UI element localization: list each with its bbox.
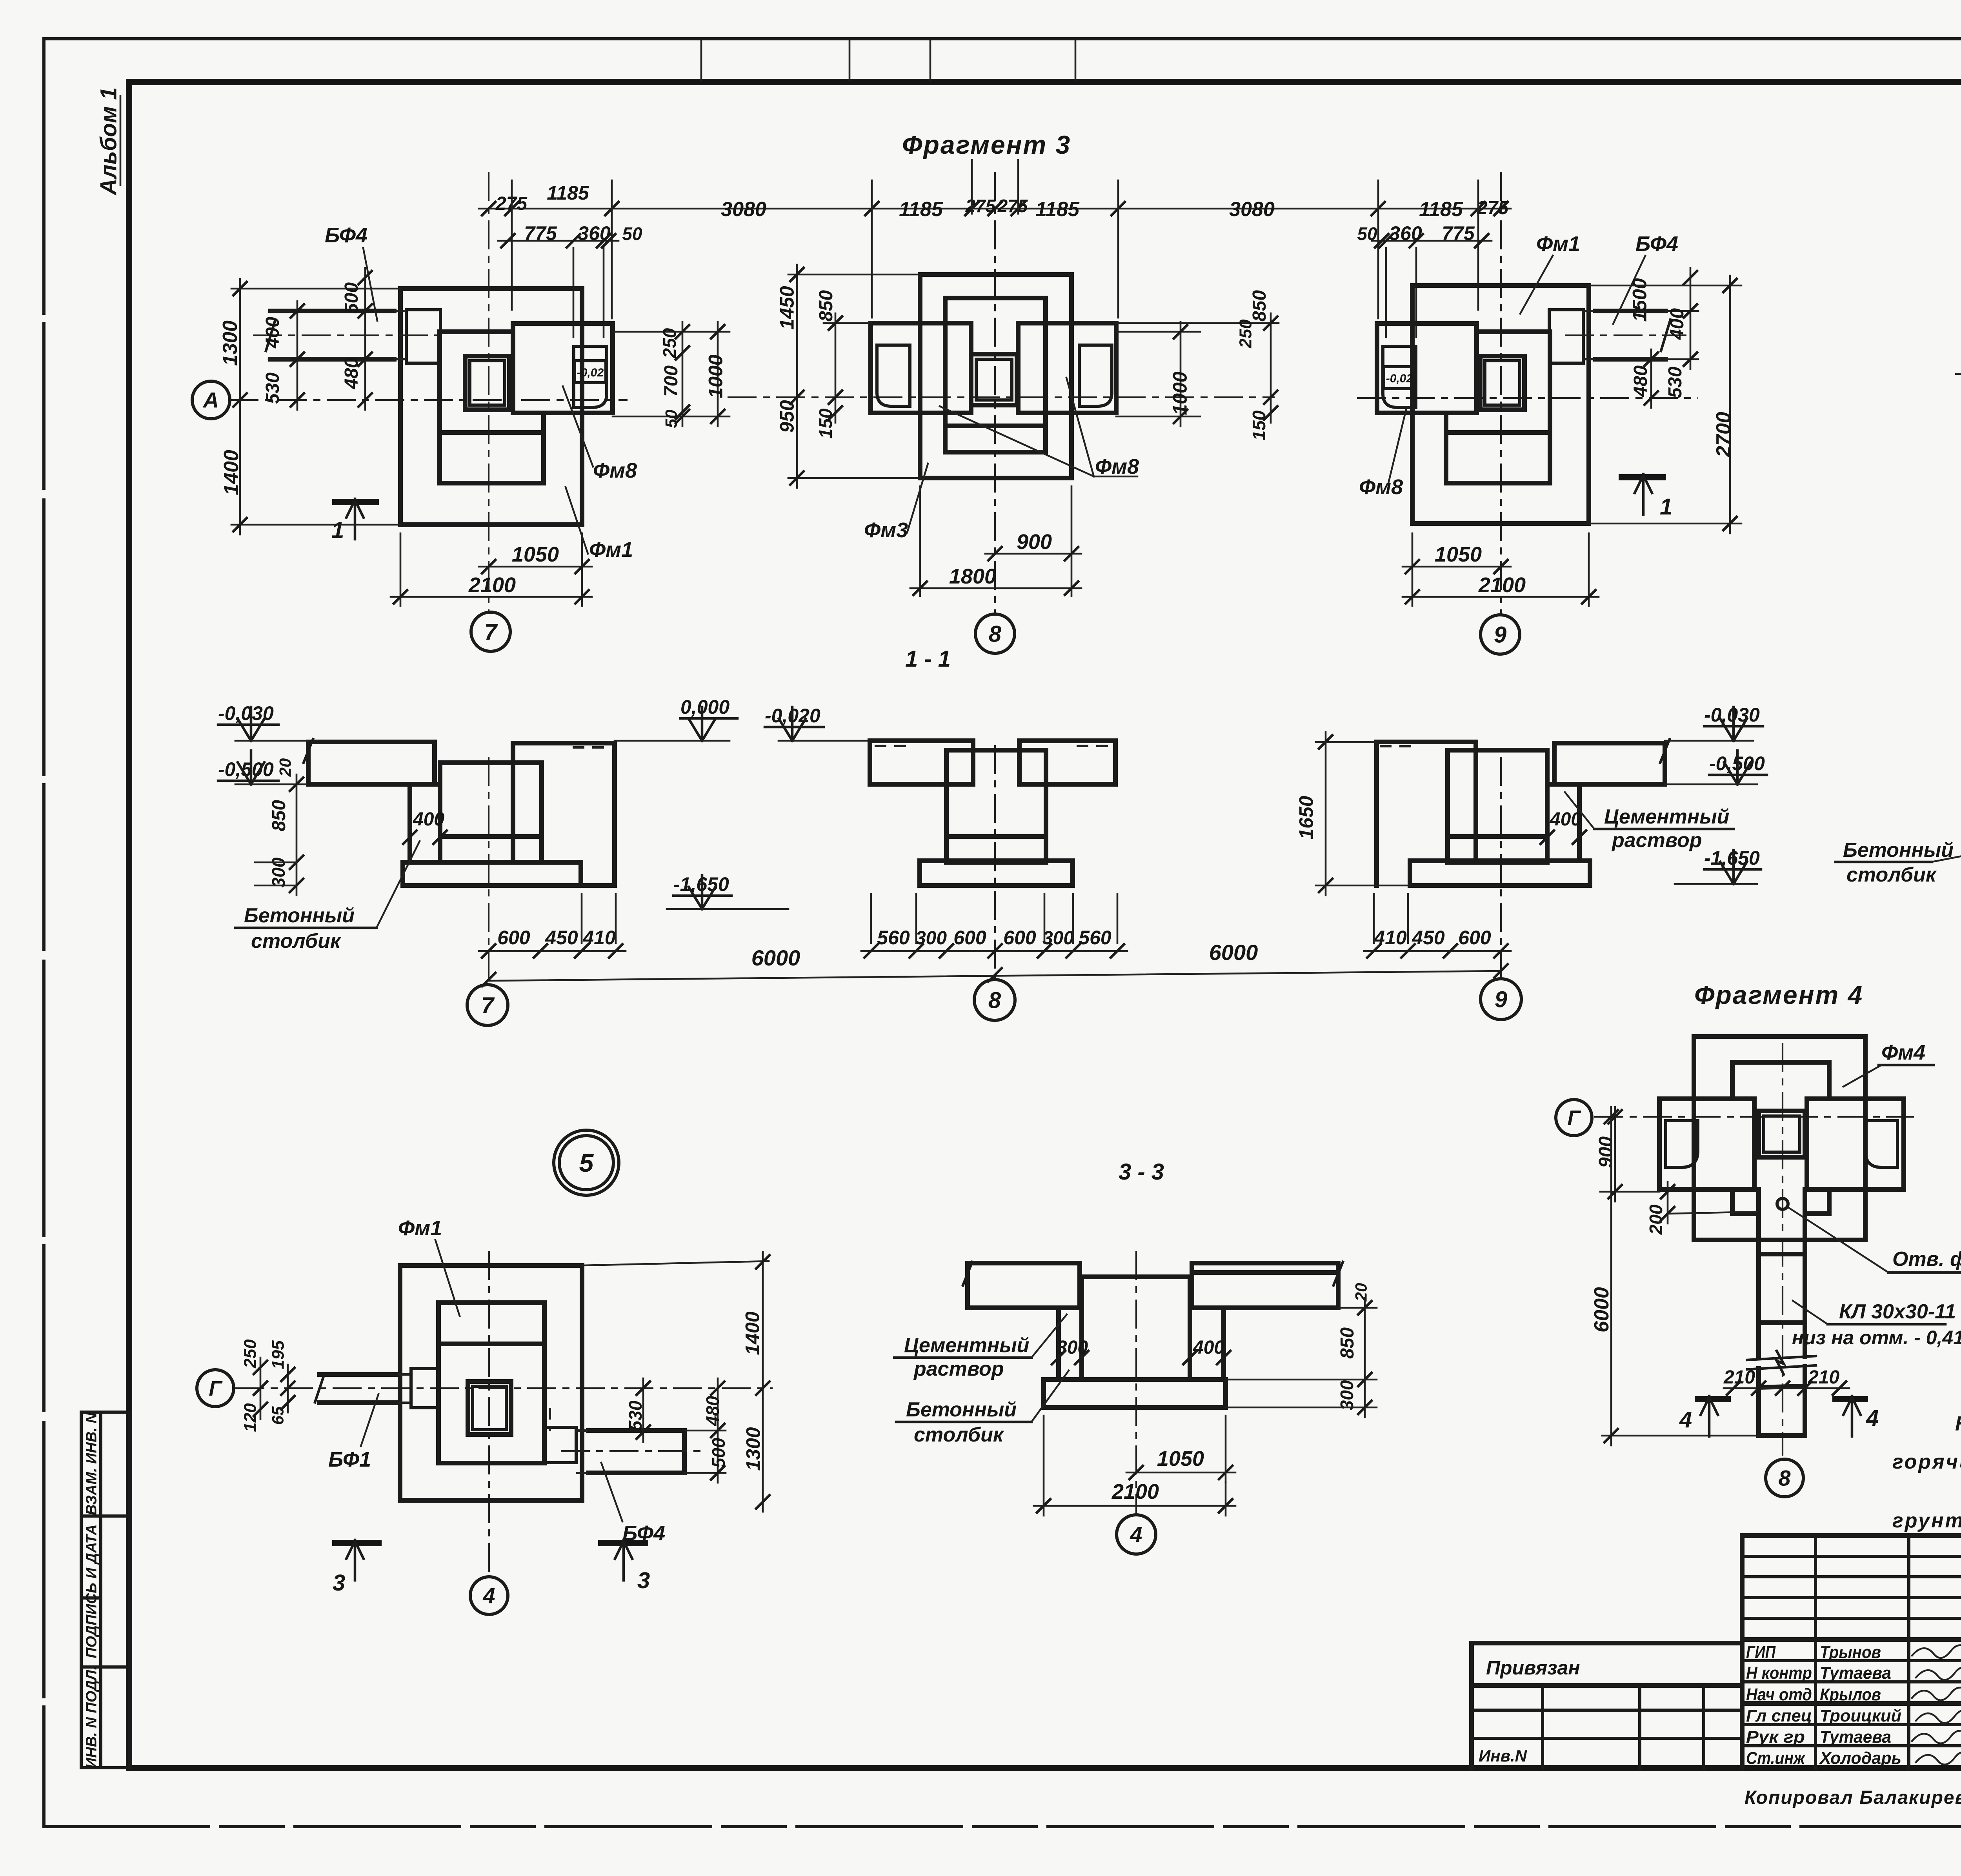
svg-text:Фм1: Фм1 [398, 1216, 442, 1240]
section A right block [513, 743, 615, 885]
svg-text:950: 950 [776, 400, 798, 433]
axis A dash-dot line [229, 399, 628, 401]
svg-text:-0,030: -0,030 [218, 702, 274, 724]
svg-text:2100: 2100 [468, 573, 516, 597]
axis 7 line [488, 172, 489, 611]
section mark 1 (left, plan 7) [335, 499, 376, 505]
section C axis line [1500, 757, 1502, 980]
svg-text:Привязан: Привязан [1486, 1657, 1580, 1679]
svg-text:столбик: столбик [1846, 863, 1937, 886]
axis G line (plan 5) [235, 1387, 773, 1389]
svg-text:Копировал Балакирева: Копировал Балакирева [1745, 1787, 1961, 1808]
svg-text:50: 50 [1357, 224, 1377, 244]
svg-text:КЛ 30х30-11: КЛ 30х30-11 [1839, 1300, 1956, 1323]
svg-text:2100: 2100 [1111, 1480, 1159, 1503]
title block left part [1472, 1641, 1742, 1645]
section mark 1 (right, plan 9) [1622, 474, 1663, 480]
signature squiggles [1912, 1645, 1961, 1658]
axis 8 line [994, 172, 996, 613]
svg-text:2100: 2100 [1478, 573, 1526, 597]
section 3-3 right post [1190, 1308, 1224, 1380]
svg-text:500: 500 [341, 282, 362, 314]
svg-text:7: 7 [481, 993, 495, 1018]
svg-text:Фрагмент 3: Фрагмент 3 [902, 130, 1071, 159]
svg-text:500: 500 [708, 1438, 729, 1468]
dim 1050 (plan 9) [1412, 533, 1413, 606]
section C floor slab right [1554, 743, 1665, 784]
section 3-3 lotok slab right [1192, 1263, 1338, 1308]
dim chain 275-1185-3080-1185-275x2-1185-3080-1185-275 [479, 208, 1511, 210]
svg-text:БФ4: БФ4 [1635, 232, 1678, 256]
svg-text:Тутаева: Тутаева [1820, 1727, 1891, 1747]
svg-text:560: 560 [1079, 927, 1111, 949]
section B footing [920, 861, 1073, 885]
svg-text:Холодарь: Холодарь [1819, 1749, 1901, 1768]
svg-text:410: 410 [1373, 927, 1407, 949]
axis 7 bubble (section row) [467, 985, 508, 1025]
svg-text:65: 65 [269, 1406, 287, 1425]
svg-text:600: 600 [1003, 927, 1036, 949]
svg-text:Бетонный: Бетонный [244, 904, 355, 927]
svg-text:горячим: горячим [1892, 1451, 1961, 1473]
svg-text:низ на отм. - 0,410: низ на отм. - 0,410 [1792, 1327, 1961, 1349]
axis G line (fragment 4) [1594, 1116, 1914, 1118]
svg-text:150: 150 [1249, 410, 1269, 440]
column pocket (plan 9) [1480, 356, 1524, 410]
svg-text:150: 150 [815, 408, 836, 438]
svg-text:1185: 1185 [547, 182, 589, 204]
svg-text:195: 195 [268, 1340, 287, 1369]
section C concrete post [1547, 784, 1579, 861]
beam BF1 seat (plan 5) [411, 1369, 439, 1408]
fold mark 4 [1075, 41, 1077, 80]
fragment 4 foundation Fm4 outline [1694, 1036, 1865, 1240]
section A floor slab left [308, 742, 435, 784]
axis A bubble [192, 381, 230, 419]
axis 8 bubble (plan row) [975, 614, 1015, 653]
dim chain 50-360-775 (plan 9) [1372, 240, 1492, 242]
svg-text:775: 775 [1442, 222, 1475, 244]
section 3-3 center block [1082, 1277, 1190, 1380]
dim 210 210 (fragment 4) [1724, 1387, 1849, 1389]
svg-text:9: 9 [1494, 622, 1506, 647]
column pocket (plan 7) [465, 356, 509, 410]
dims 1300 1400 (plan 7 left) [231, 288, 400, 290]
svg-text:400: 400 [413, 809, 444, 830]
svg-text:8: 8 [988, 987, 1001, 1013]
svg-text:200: 200 [1646, 1204, 1666, 1235]
dims 250 195 120 65 (plan 5 left) [260, 1358, 262, 1419]
svg-text:6000: 6000 [751, 945, 800, 970]
svg-text:Фм1: Фм1 [589, 538, 633, 562]
axis 8 bubble (section row) [974, 980, 1015, 1020]
axis 4 bubble (3-3) [1117, 1515, 1156, 1554]
dims 480 500 (plan 5 beam BF4) [684, 1430, 726, 1432]
section B axis line [994, 745, 996, 980]
svg-text:410: 410 [582, 927, 616, 949]
axis 7 bubble (plan row) [471, 612, 510, 651]
svg-text:Бетонный: Бетонный [1843, 839, 1954, 862]
stamp narrow table rows [1742, 1555, 1961, 1558]
section C left block [1377, 742, 1476, 885]
svg-text:-0,02: -0,02 [577, 366, 604, 379]
axis 4 line (plan 5) [488, 1251, 490, 1576]
plan 5 foundation outline [400, 1265, 582, 1500]
section B floor slab right [1019, 741, 1115, 784]
svg-text:1400: 1400 [742, 1311, 764, 1355]
svg-text:1185: 1185 [1419, 198, 1463, 221]
svg-text:столбик: столбик [914, 1423, 1004, 1446]
svg-text:700: 700 [661, 365, 682, 397]
svg-text:1050: 1050 [512, 543, 559, 566]
svg-text:3080: 3080 [1229, 198, 1275, 221]
Fm8 channel recess (plan 7) [574, 346, 607, 407]
svg-text:850: 850 [269, 800, 289, 831]
beam BF1 (plan 5) [320, 1372, 398, 1377]
svg-text:столбик: столбик [251, 930, 342, 953]
axis G dash-dot line (plan near axis 14) [1955, 373, 1961, 375]
dims 480 530 (plan 9 beam low) [1650, 349, 1652, 408]
plan 7 inner opening [440, 329, 513, 334]
dim 900 (fragment 4) [1600, 1116, 1620, 1118]
svg-text:530: 530 [262, 373, 283, 404]
beam BF4 (plan 7) [271, 309, 394, 313]
dim 2700 (plan 9 right) [1589, 285, 1741, 287]
svg-text:50: 50 [622, 224, 642, 244]
svg-text:4: 4 [1679, 1407, 1692, 1432]
section mark 4 (left, fragment 4) [1698, 1396, 1728, 1402]
svg-text:120: 120 [240, 1403, 260, 1432]
section C column [1448, 750, 1547, 862]
plan 9 foundation Fm1 outline [1412, 285, 1589, 524]
svg-text:1300: 1300 [219, 320, 242, 366]
dims 1000 (plan 8 right) [1116, 331, 1200, 333]
svg-text:раствор: раствор [913, 1358, 1004, 1380]
svg-text:1: 1 [331, 518, 344, 543]
svg-text:4: 4 [1130, 1522, 1142, 1547]
svg-text:1050: 1050 [1435, 543, 1482, 566]
Fm8 right channel recess [1079, 345, 1112, 406]
section A footing [403, 862, 581, 885]
lotok channel KL30x30 shaft [1756, 1189, 1761, 1357]
block Fm8 right (plan 8) [1018, 323, 1116, 413]
column pocket (plan 8) [971, 354, 1017, 405]
dims 1450 950 (plan 8 left) [788, 274, 920, 276]
svg-text:1650: 1650 [1295, 796, 1317, 839]
block Fm8 left (fragment 4) [1659, 1099, 1754, 1189]
left margin attribute strip [81, 1412, 130, 1768]
svg-text:450: 450 [1412, 927, 1445, 949]
svg-text:ПОДПИСЬ И ДАТА: ПОДПИСЬ И ДАТА [83, 1524, 100, 1658]
dim 900 (plan 8) [1071, 486, 1073, 596]
svg-text:600: 600 [953, 927, 986, 949]
svg-text:275: 275 [997, 196, 1028, 216]
svg-text:Фм8: Фм8 [1095, 455, 1139, 478]
shaft break lines [1747, 1356, 1816, 1360]
axis 8 line (fragment 4) [1782, 1043, 1783, 1456]
dim 1650 (section C left) [1325, 732, 1327, 895]
beam BF4 seat (plan 9) [1549, 310, 1583, 363]
beam BF4 (plan 9) [1595, 309, 1666, 313]
svg-text:-1,650: -1,650 [1704, 847, 1760, 869]
block Fm8 (plan 9) [1377, 324, 1477, 413]
svg-text:-0,02: -0,02 [1386, 372, 1413, 385]
plan 8 foundation Fm3 outline [920, 274, 1071, 478]
dim 1050 (3-3) [1126, 1472, 1235, 1474]
svg-text:480: 480 [702, 1396, 723, 1426]
svg-text:3: 3 [637, 1568, 650, 1593]
fragment 4 inner rect [1732, 1060, 1829, 1065]
section mark 3 (left, plan 5) [335, 1540, 378, 1546]
svg-text:грунтовке.: грунтовке. [1892, 1509, 1961, 1532]
axis G bubble (plan 5) [197, 1370, 234, 1407]
svg-text:360: 360 [1389, 222, 1422, 244]
svg-text:450: 450 [545, 927, 578, 949]
fold mark 3 [930, 41, 931, 80]
svg-text:2700: 2700 [1712, 412, 1735, 458]
axis 4 bubble (plan 5) [470, 1577, 508, 1614]
section A axis line [488, 757, 489, 980]
dim 200 (fragment 4) [1667, 1182, 1669, 1223]
svg-text:4: 4 [1866, 1405, 1879, 1431]
axis 9 line [1500, 172, 1502, 614]
svg-text:400: 400 [1550, 809, 1581, 830]
svg-text:Фм1: Фм1 [1536, 232, 1580, 256]
svg-text:3: 3 [333, 1570, 345, 1596]
section 3-3 axis line [1135, 1251, 1137, 1514]
svg-text:300: 300 [1337, 1380, 1357, 1410]
svg-text:ГИП: ГИП [1746, 1643, 1776, 1662]
svg-text:1300: 1300 [742, 1427, 764, 1471]
shaft lower part [1756, 1369, 1761, 1436]
svg-text:Инв.N: Инв.N [1479, 1747, 1528, 1765]
dims 850 150 (plan 8 left2) [824, 322, 871, 324]
slope mark -0.02 (plan 9) [1384, 367, 1415, 389]
svg-text:900: 900 [1017, 530, 1052, 554]
dims 1500 400 (plan 9 beam) [1666, 310, 1698, 312]
stamp columns [1814, 1536, 1817, 1768]
svg-text:1400: 1400 [220, 450, 243, 495]
svg-text:250: 250 [1236, 319, 1255, 349]
Fm8 left channel recess [877, 345, 910, 406]
dims 1400 1300 (plan 5 right) [582, 1261, 769, 1265]
svg-text:Бетонный: Бетонный [906, 1398, 1017, 1421]
svg-text:480: 480 [341, 358, 362, 389]
block Fm8 left (plan 8) [871, 323, 971, 413]
svg-text:600: 600 [497, 927, 530, 949]
svg-text:275: 275 [965, 196, 996, 216]
column pocket (fragment 4) [1759, 1111, 1805, 1157]
stamp outline [1742, 1533, 1961, 1538]
dim 2100 (plan 9) [1588, 533, 1590, 606]
svg-text:3080: 3080 [721, 198, 766, 221]
dims 250 700 50 1000 (plan 7 right) [613, 331, 729, 333]
svg-text:Рук гр: Рук гр [1746, 1727, 1805, 1747]
svg-text:600: 600 [1458, 927, 1491, 949]
dims 850 250 150 (plan 8 right2) [1116, 322, 1279, 324]
svg-text:6000: 6000 [1209, 940, 1258, 965]
dim chain 600 450 410 (section A) [479, 950, 626, 952]
svg-text:ИНВ. N ПОДЛ.: ИНВ. N ПОДЛ. [83, 1666, 100, 1769]
svg-text:7: 7 [484, 619, 498, 645]
dim 530 (plan 5) [642, 1378, 644, 1442]
column pocket (plan 5) [468, 1382, 511, 1434]
section 3-3 floor slab left [968, 1263, 1080, 1308]
hole otv d150 [1777, 1198, 1788, 1209]
svg-text:560: 560 [877, 927, 910, 949]
svg-text:Гл спец: Гл спец [1746, 1706, 1812, 1725]
dim 1050 (plan 7) [581, 533, 583, 606]
section mark 3 (right, plan 5) [601, 1540, 645, 1546]
plan 8 inner rect [945, 298, 1046, 452]
section B floor slab left [870, 741, 973, 784]
section A concrete post [410, 784, 440, 862]
dim 2100 (3-3) [1034, 1505, 1235, 1507]
svg-text:Крылов: Крылов [1820, 1685, 1881, 1704]
Fm8 channel recess (plan 9) [1383, 346, 1416, 407]
svg-text:275: 275 [1477, 198, 1509, 218]
stamp personnel rows [1742, 1659, 1961, 1662]
section 3-3 left post [1059, 1308, 1082, 1380]
svg-text:-0,030: -0,030 [1704, 704, 1760, 726]
dim chain 775-360-50 (plan 7) [498, 240, 618, 242]
section mark 4 (right, fragment 4) [1835, 1396, 1865, 1402]
dim 6000 (fragment 4) [1602, 1435, 1759, 1437]
beam BF4 seat (plan 5) [544, 1427, 576, 1463]
fold mark 1 [700, 41, 702, 80]
plan 7 foundation Fm1 outline [400, 289, 582, 525]
svg-text:0,000: 0,000 [680, 696, 729, 718]
svg-text:Н контр: Н контр [1746, 1663, 1812, 1683]
svg-text:300: 300 [1042, 928, 1074, 949]
svg-text:Фм8: Фм8 [593, 459, 637, 482]
svg-text:210: 210 [1808, 1367, 1839, 1388]
main frame border [129, 79, 1961, 85]
svg-text:900: 900 [1595, 1136, 1616, 1168]
svg-text:Фм3: Фм3 [864, 518, 908, 542]
svg-text:Цементный: Цементный [1604, 805, 1729, 828]
axis 8 bubble (fragment 4) [1766, 1459, 1803, 1497]
svg-text:400: 400 [1667, 308, 1688, 340]
svg-text:850: 850 [816, 290, 837, 322]
extension lines of top chain [511, 180, 513, 310]
svg-text:Фрагмент 4: Фрагмент 4 [1694, 980, 1863, 1009]
svg-text:850: 850 [1337, 1327, 1358, 1359]
axis G bubble (fragment 4) [1556, 1100, 1592, 1136]
svg-text:20: 20 [276, 758, 295, 777]
svg-text:775: 775 [524, 222, 557, 244]
dim 1800 (plan 8) [919, 486, 921, 596]
svg-text:400: 400 [262, 317, 283, 349]
svg-text:Ст.инж: Ст.инж [1746, 1749, 1806, 1768]
svg-text:1450: 1450 [776, 286, 798, 329]
dim 6000 grid line (7-8) [489, 971, 1501, 981]
svg-text:8: 8 [989, 621, 1002, 647]
svg-text:А: А [202, 388, 219, 413]
section 3-3 footing [1044, 1380, 1226, 1407]
svg-text:Фм4: Фм4 [1881, 1041, 1925, 1064]
svg-text:Цементный: Цементный [904, 1334, 1029, 1357]
axis 9 bubble (section row) [1481, 979, 1521, 1020]
svg-text:БФ4: БФ4 [325, 224, 367, 247]
svg-text:1 - 1: 1 - 1 [905, 646, 951, 672]
svg-text:Троицкий: Троицкий [1820, 1706, 1901, 1725]
svg-text:850: 850 [1249, 290, 1270, 322]
svg-text:530: 530 [1665, 367, 1686, 398]
svg-text:Альбом 1: Альбом 1 [96, 87, 121, 196]
svg-text:1185: 1185 [1035, 198, 1080, 221]
svg-text:Отв. ф150: Отв. ф150 [1892, 1248, 1961, 1271]
svg-text:3 - 3: 3 - 3 [1119, 1159, 1164, 1185]
svg-text:Фм8: Фм8 [1359, 475, 1403, 499]
block Fm8 (plan 7) [513, 324, 613, 413]
section C footing [1410, 861, 1590, 885]
dims 400 530 (plan 7 beam) [271, 310, 290, 312]
svg-text:5: 5 [579, 1148, 594, 1177]
slope mark -0.02 (plan 7) [575, 361, 606, 383]
axis 9 bubble (plan row) [1481, 615, 1520, 654]
svg-text:Нач отд: Нач отд [1746, 1685, 1812, 1704]
dim chain 560 300 600 600 300 560 (section B) [861, 950, 1127, 952]
svg-text:Наружные: Наружные [1955, 1412, 1961, 1435]
fold mark 2 [849, 41, 851, 80]
section B column [946, 750, 1046, 862]
svg-text:8: 8 [1778, 1466, 1791, 1491]
svg-text:Г: Г [209, 1377, 223, 1400]
svg-text:Трынов: Трынов [1820, 1643, 1881, 1662]
svg-text:20: 20 [1352, 1283, 1370, 1302]
svg-text:9: 9 [1495, 987, 1507, 1012]
svg-text:1800: 1800 [949, 565, 996, 588]
svg-text:раствор: раствор [1611, 829, 1702, 852]
svg-text:530: 530 [625, 1400, 646, 1431]
sheet outer trim border [44, 37, 1961, 40]
plan 5 inner block Fm1 [438, 1303, 544, 1463]
svg-text:480: 480 [1630, 365, 1651, 397]
dim chain 410 450 600 (section C) [1364, 950, 1511, 952]
svg-text:Тутаева: Тутаева [1820, 1663, 1891, 1683]
beam BF4 right (plan 5) [588, 1428, 684, 1433]
svg-text:4: 4 [482, 1583, 495, 1608]
svg-text:50: 50 [662, 410, 680, 428]
svg-text:ВЗАМ. ИНВ. N: ВЗАМ. ИНВ. N [83, 1412, 100, 1515]
svg-text:210: 210 [1723, 1367, 1755, 1388]
dim 2100 (plan 7) [400, 533, 402, 606]
svg-text:1185: 1185 [899, 198, 943, 221]
plan 9 inner opening [1477, 329, 1550, 334]
svg-text:Г: Г [1567, 1106, 1581, 1130]
section A foundation column [440, 763, 542, 862]
svg-text:250: 250 [240, 1339, 260, 1369]
node marker 5 (detail bubble) [554, 1130, 619, 1195]
svg-text:400: 400 [1193, 1337, 1224, 1358]
svg-text:6000: 6000 [1590, 1287, 1613, 1332]
svg-text:БФ1: БФ1 [328, 1448, 371, 1471]
block Fm8 right (fragment 4) [1807, 1099, 1904, 1189]
svg-text:250: 250 [659, 328, 680, 358]
svg-text:300: 300 [915, 928, 947, 949]
beam BF4 seat (plan 7) [406, 310, 440, 363]
svg-text:1050: 1050 [1157, 1447, 1204, 1471]
svg-text:1000: 1000 [705, 354, 727, 398]
svg-text:1: 1 [1660, 494, 1672, 520]
svg-text:1000: 1000 [1169, 371, 1191, 415]
dims 500 480 (plan 7 beam right) [364, 268, 366, 410]
svg-text:360: 360 [578, 222, 611, 244]
